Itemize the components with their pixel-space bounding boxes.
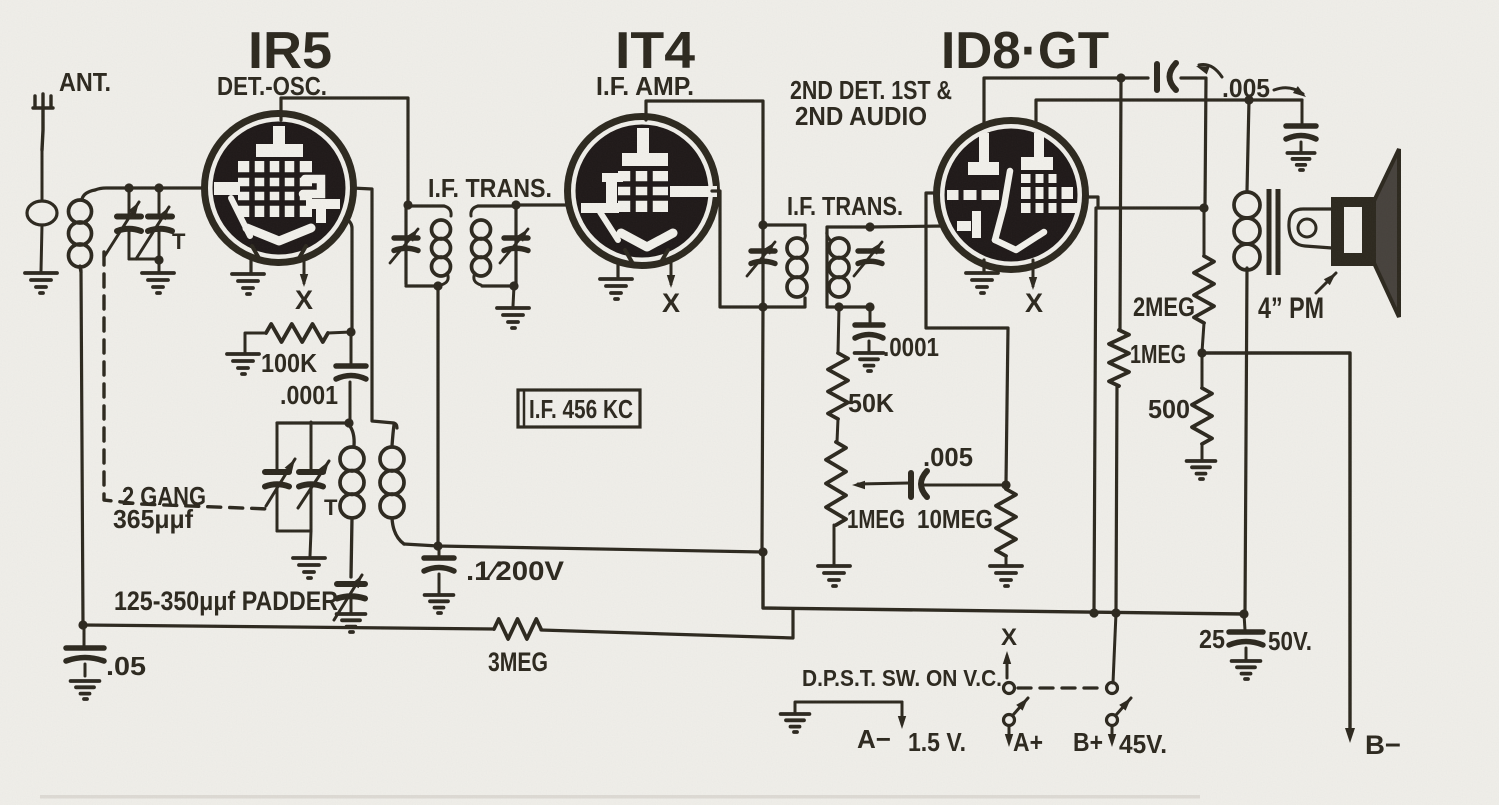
wire 2MEG top <box>1203 208 1206 256</box>
wire trimmer right stem <box>158 188 161 216</box>
switch pole B contact top <box>1107 683 1118 694</box>
IF1 primary coil <box>432 206 452 285</box>
node IF2 pri top <box>758 220 767 229</box>
ground osc gang <box>293 558 325 578</box>
IR5 label <box>248 22 332 80</box>
I.F. 456 KC box <box>518 390 640 427</box>
wire IF1 pri down <box>436 286 439 546</box>
wire padder ground stem <box>350 597 353 612</box>
IF2 secondary coil <box>827 231 849 297</box>
wire .005 speaker gnd stem <box>1300 142 1303 151</box>
switch pole B contact bottom <box>1107 715 1118 726</box>
ground padder <box>337 614 366 632</box>
output transformer core <box>1269 189 1278 275</box>
.005 top label <box>1222 73 1270 103</box>
wire 500 top <box>1201 353 1204 388</box>
wire osc gang ground stem <box>310 531 311 556</box>
resistor 2MEG <box>1194 256 1214 323</box>
wire IF2 pri down <box>762 307 763 551</box>
arrow padder <box>334 575 362 620</box>
capacitor padder plates <box>337 584 365 599</box>
switch pole A contact bottom <box>1004 715 1015 726</box>
switch arm A <box>1013 698 1028 715</box>
IF2 primary frame <box>763 225 805 307</box>
oscillator coil right <box>380 425 404 544</box>
wire grid cap lower stem <box>349 382 352 421</box>
ground tuning gang <box>142 273 174 293</box>
resistor 1MEG grid <box>1109 330 1129 386</box>
wire 1D8 ground pin <box>982 260 985 271</box>
node 100K junction <box>346 327 355 336</box>
capacitor trimmer T plates <box>148 217 172 232</box>
node bus plate branch <box>1089 608 1098 617</box>
voice coil <box>1289 209 1332 248</box>
node IF1 sec top <box>511 200 520 209</box>
wire .0001 det ground stem <box>868 341 871 351</box>
1.5V label <box>908 727 966 757</box>
capacitor coupling series top <box>1157 63 1176 90</box>
wire bottom bus <box>763 551 1244 614</box>
wire osc gang right stem <box>310 422 313 471</box>
arrow gang C1a <box>104 202 139 257</box>
wire osc gang right lower <box>310 485 313 531</box>
arrow IF1 sec trimmer <box>500 229 528 263</box>
node plate 2MEG junction <box>1199 203 1208 212</box>
arrow to speaker cap <box>1274 86 1306 97</box>
pin X arrow 1D8 <box>1029 260 1037 290</box>
node IF2 trimmer bottom <box>865 302 874 311</box>
wire 1D8 plate out <box>1084 197 1202 208</box>
A+ label <box>1013 727 1043 757</box>
arrow pot wiper <box>852 481 909 489</box>
wire 1T4 screen rail <box>646 101 763 223</box>
wire 1MEG top <box>1120 78 1121 330</box>
tube U3 1D8-GT <box>937 121 1086 270</box>
arrow osc trimmer <box>298 461 329 508</box>
capacitor .05 <box>66 625 104 676</box>
capacitor osc trimmer T plates <box>299 472 323 487</box>
oscillator coil left <box>340 425 364 577</box>
wire osc gang left lower <box>276 485 279 531</box>
B- label <box>1365 730 1401 760</box>
wire cap to 10MEG <box>924 484 1004 487</box>
wire AVC 3MEG line <box>83 610 793 638</box>
antenna coupling loop <box>27 201 57 225</box>
capacitor IF2 pri trimmer <box>751 251 775 264</box>
node AVC left <box>78 620 87 629</box>
node B- junction <box>1197 348 1206 357</box>
wire 50K top <box>838 307 839 353</box>
ANT. label <box>59 67 111 97</box>
I.F. TRANS. label 2 <box>787 191 903 221</box>
wire loop to ground <box>41 225 42 271</box>
node IF2 pri bottom <box>758 302 767 311</box>
wire gang left bottom <box>128 229 131 259</box>
wire 1T4 plate <box>712 191 761 307</box>
arrow A+ terminal <box>1005 726 1013 747</box>
1MEG grid label <box>1130 339 1186 369</box>
wire to ground gang <box>158 259 161 271</box>
speaker magnet <box>1331 197 1375 266</box>
wire 1R5 plate rail <box>281 98 408 203</box>
wire 25 gnd stem <box>1245 648 1248 659</box>
wire gang bus <box>277 421 349 424</box>
resistor 10MEG <box>996 489 1016 556</box>
50V. label <box>1268 626 1312 656</box>
arrow A- terminal <box>898 702 906 729</box>
.0001 label osc <box>280 380 338 410</box>
pin X arrow 1T4 <box>667 260 675 288</box>
wire grid cap stem <box>350 332 353 363</box>
wire 1T4 ground pin <box>616 262 619 277</box>
D.P.S.T. label <box>802 665 1002 691</box>
switch pole A contact top <box>1004 683 1015 694</box>
speaker cone <box>1374 149 1399 317</box>
.05 label <box>106 651 146 681</box>
.0001 det label <box>883 332 939 362</box>
25 label <box>1199 624 1225 654</box>
IT4 label <box>615 22 695 80</box>
T label osc trimmer <box>324 495 338 520</box>
ground 1R5 <box>232 274 264 294</box>
wire grid bus 1R5 <box>95 188 205 190</box>
wire trimmer bottom <box>158 229 161 259</box>
ground 100K <box>227 354 259 374</box>
arrow trimmer T <box>136 207 169 259</box>
ground .05 <box>71 681 100 699</box>
node gang bottom <box>154 255 163 264</box>
ground .0001 det <box>855 353 884 371</box>
I.F. TRANS. label 1 <box>428 173 552 203</box>
capacitor IF1 pri trimmer <box>394 238 418 251</box>
arrow switch to X <box>1003 651 1011 678</box>
wire 100K right <box>328 332 351 333</box>
X label 1R5 <box>295 285 313 315</box>
wire B+ from bus <box>1113 613 1116 683</box>
DET.-OSC. label <box>217 71 327 101</box>
antenna symbol <box>33 94 53 150</box>
wire left vertical AVC <box>81 270 83 625</box>
wire plate down branch <box>1094 208 1096 612</box>
node bus output end <box>1239 609 1248 618</box>
node IF1 sec bottom <box>509 281 518 290</box>
capacitor gang C1b plates <box>265 472 289 487</box>
wire 2MEG bottom <box>1202 323 1204 352</box>
arrow B+ terminal <box>1108 726 1116 747</box>
wire IF1 sec ground stem <box>513 286 514 306</box>
100K label <box>261 348 317 378</box>
resistor 50K <box>828 353 848 419</box>
node rail 1MEG tap <box>1116 73 1125 82</box>
ground 25/50V <box>1232 661 1261 679</box>
capacitor .0001 det <box>855 325 883 338</box>
ground A battery <box>781 714 810 732</box>
arrow IF2 pri trimmer <box>747 242 775 276</box>
dashed gang link <box>104 252 268 509</box>
wire 200V line <box>404 544 763 552</box>
X label switch <box>1001 624 1017 651</box>
1MEG pot label <box>847 504 905 534</box>
2ND AUDIO label <box>795 101 927 131</box>
wire osc gang bottom <box>277 530 311 533</box>
wire 1D8 screen rail <box>1036 100 1302 125</box>
node 200V junction <box>433 541 442 550</box>
node IF1 pri bottom <box>433 281 442 290</box>
node 10MEG top <box>1001 480 1010 489</box>
wire 1R5 osc plate <box>352 188 397 428</box>
capacitor .0001 osc <box>336 366 366 379</box>
node bus 1MEG branch <box>1111 608 1120 617</box>
IF1 secondary frame <box>478 206 516 286</box>
2MEG label <box>1133 292 1195 322</box>
pin X arrow 1R5 <box>300 260 308 287</box>
wire IF2 sec to 1D8 grid <box>870 226 944 227</box>
ground IF1 secondary <box>497 308 529 328</box>
capacitor 25/50V <box>1229 614 1263 645</box>
ground volume pot <box>818 566 850 586</box>
3MEG label <box>488 647 548 677</box>
capacitor gang C1a plates <box>117 217 141 232</box>
resistor 1MEG volume pot <box>826 442 846 525</box>
I.F. AMP. label <box>596 71 694 101</box>
arrow IF1 pri trimmer <box>390 229 418 263</box>
resistor 100K <box>266 324 328 342</box>
dashed switch link <box>1018 686 1102 689</box>
IF1 primary frame <box>406 206 444 286</box>
ground .1/200V <box>425 595 454 613</box>
wire det return <box>926 193 1008 483</box>
ground 1T4 <box>600 279 632 299</box>
ground 10MEG <box>990 566 1022 586</box>
tube U1 1R5 <box>205 114 354 263</box>
capacitor .005 coupling <box>911 471 927 497</box>
ground .005 speaker <box>1287 153 1314 170</box>
.005 coupling label <box>923 442 973 472</box>
capacitor IF2 sec trimmer <box>858 251 882 264</box>
node IF1 pri top <box>403 200 412 209</box>
output transformer primary coil <box>1234 192 1260 270</box>
ground 500 <box>1187 461 1216 479</box>
capacitor .005 speaker <box>1286 126 1316 139</box>
45V. label <box>1119 729 1167 759</box>
T label antenna trimmer <box>172 229 186 254</box>
resistor 3MEG <box>494 619 541 639</box>
arrow gang C1b <box>266 459 295 506</box>
wire .005 speaker stem <box>1301 100 1304 123</box>
node osc coil top <box>344 418 353 427</box>
arrow speaker <box>1316 273 1336 293</box>
4 PM label <box>1258 292 1324 325</box>
wire B- line <box>1202 353 1355 743</box>
wire antenna lead-in <box>41 150 44 199</box>
wire 50K to pot <box>837 419 838 442</box>
scan artifact bottom streak <box>40 795 1200 799</box>
ground antenna <box>25 273 57 293</box>
wire IF1 sec to 1T4 <box>516 203 570 206</box>
2ND DET. 1ST &amp; label <box>790 75 952 105</box>
125-350uuf PADDER label <box>114 586 338 616</box>
node AVC bus junction <box>758 547 767 556</box>
capacitor .1/200V <box>424 546 454 593</box>
wire output primary bottom <box>1245 268 1247 613</box>
wire pot ground stem <box>833 525 836 564</box>
A- label <box>857 724 891 754</box>
IF1 secondary coil <box>471 206 491 285</box>
wire A- line <box>795 702 902 712</box>
wire osc gang left stem <box>276 423 279 471</box>
ID8-GT label <box>941 22 1109 80</box>
node rail2 output tap <box>1244 95 1253 104</box>
node IF2 sec bottom <box>834 302 843 311</box>
tube U2 1T4 <box>568 117 718 266</box>
arrow IF2 sec trimmer <box>854 242 882 276</box>
antenna coil L1 <box>69 190 96 272</box>
wire output primary top <box>1247 100 1249 191</box>
wire 1R5 osc grid <box>345 218 352 330</box>
wire gang left stem <box>128 188 131 216</box>
switch arm B <box>1116 698 1131 715</box>
2 GANG label <box>122 481 206 511</box>
I.F. 456 KC label <box>529 394 633 424</box>
wire 10MEG ground stem <box>1005 556 1008 564</box>
B+ label <box>1073 727 1103 757</box>
50K label <box>848 388 894 418</box>
ground 1D8 <box>966 273 998 293</box>
X label 1D8 <box>1025 288 1043 318</box>
wire gang bottom join <box>129 258 159 261</box>
365uuf label <box>113 504 193 534</box>
wire 100K left <box>245 333 266 352</box>
.1/200V label <box>466 556 564 586</box>
IF2 primary coil <box>787 234 807 297</box>
500 label <box>1148 394 1190 424</box>
arrow to series cap <box>1196 65 1222 78</box>
10MEG label <box>917 504 993 534</box>
wire 1D8 plate rail cap <box>984 78 1206 206</box>
wire 1MEG bottom <box>1116 386 1117 612</box>
wire 500 gnd stem <box>1201 444 1204 459</box>
X label 1T4 <box>662 288 680 318</box>
wire 1R5 ground pin <box>249 260 252 272</box>
node gang top right <box>154 183 163 192</box>
wire trimmer to cap <box>869 307 872 322</box>
resistor 500 <box>1192 388 1212 444</box>
node IF2 sec top <box>865 222 874 231</box>
IF2 secondary frame <box>827 227 870 307</box>
node gang top left <box>124 183 133 192</box>
capacitor IF1 sec trimmer <box>504 238 528 251</box>
